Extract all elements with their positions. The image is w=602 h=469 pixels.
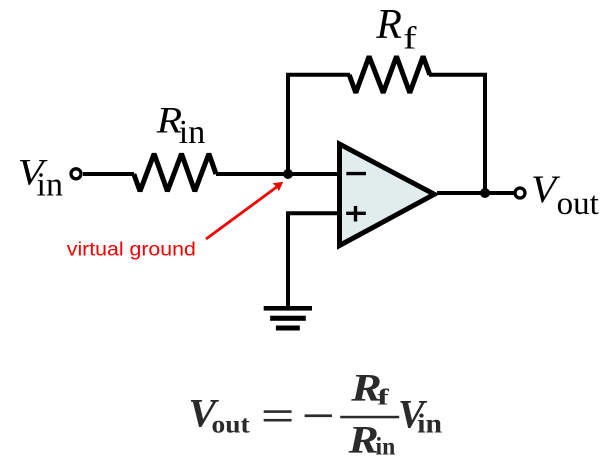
- svg-text:in: in: [417, 410, 442, 439]
- svg-text:in: in: [376, 433, 396, 461]
- svg-text:in: in: [179, 114, 205, 151]
- svg-text:R: R: [347, 418, 378, 462]
- svg-text:R: R: [375, 2, 402, 48]
- svg-text:out: out: [557, 186, 599, 222]
- svg-text:out: out: [212, 411, 250, 439]
- svg-text:virtual ground: virtual ground: [67, 239, 196, 260]
- svg-text:f: f: [403, 21, 416, 56]
- svg-text:in: in: [37, 166, 63, 203]
- svg-text:f: f: [377, 385, 390, 410]
